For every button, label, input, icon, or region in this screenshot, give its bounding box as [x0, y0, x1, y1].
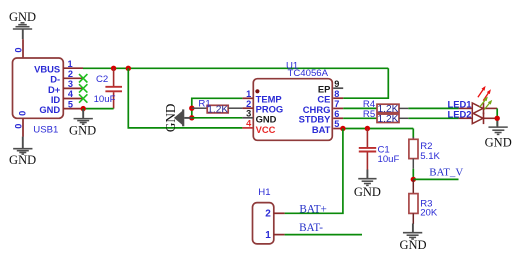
pin 1 VBUS [34, 59, 83, 75]
connector H1 [253, 187, 274, 244]
ground GND flag bottom-left [9, 137, 36, 167]
resistor R4 [363, 99, 408, 115]
ground GND flag under R3 [399, 224, 426, 253]
junction dot C2 top [111, 66, 116, 71]
wire pin5 down [82, 109, 84, 112]
ground GND flag rotated (left-pointing) [163, 104, 192, 133]
svg-text:GND: GND [354, 185, 381, 199]
capacitor C2 [94, 68, 122, 108]
svg-text:VCC: VCC [256, 124, 276, 135]
wire USB shield top pin [22, 39, 24, 58]
svg-text:H1: H1 [258, 187, 270, 198]
svg-text:8: 8 [334, 89, 339, 99]
junction dot C1 top [365, 126, 370, 131]
svg-text:10uF: 10uF [378, 154, 400, 165]
wire BAT rail [343, 128, 413, 130]
ground GND flag under C1 [354, 170, 381, 199]
pin 7 CHRG [303, 99, 343, 115]
svg-text:BAT-: BAT- [299, 222, 323, 234]
svg-text:5.1K: 5.1K [420, 151, 440, 162]
junction dot LED2 cathode [495, 116, 500, 121]
svg-text:TC4056A: TC4056A [288, 68, 329, 79]
no-connect X pin4 [79, 94, 87, 102]
resistor R5 [363, 109, 408, 125]
junction dot BAT_V node [411, 177, 416, 182]
svg-text:GND: GND [9, 153, 36, 167]
pin 2 D- [50, 69, 83, 85]
pin 3 GND [242, 109, 276, 125]
svg-text:20K: 20K [420, 207, 438, 218]
svg-text:0: 0 [17, 111, 27, 116]
svg-text:C2: C2 [96, 74, 108, 85]
wire R5 to LED2 [408, 117, 458, 119]
pin 5 BAT [312, 119, 343, 135]
svg-text:0: 0 [14, 47, 24, 52]
wire GND node to U1 pin3 [192, 117, 243, 119]
resistor R2 [409, 137, 441, 169]
svg-text:1: 1 [246, 89, 251, 99]
svg-text:5: 5 [68, 99, 73, 109]
LED LED2 [459, 97, 498, 125]
wire STDBY to R5 [343, 117, 377, 119]
svg-text:GND: GND [9, 10, 36, 24]
pin 4 ID [51, 89, 83, 105]
wire GND pin5 to C2 bottom [83, 108, 113, 110]
svg-text:BAT+: BAT+ [299, 203, 326, 215]
svg-text:USB1: USB1 [33, 125, 58, 136]
no-connect X pin3 [79, 84, 87, 92]
svg-text:5: 5 [334, 119, 339, 129]
ground GND flag under LEDs [485, 121, 512, 150]
svg-text:2: 2 [246, 99, 251, 109]
pin 3 D+ [48, 79, 83, 95]
capacitor C1 [359, 129, 400, 171]
wire CHRG to R4 [343, 107, 377, 109]
wire R4 to LED1 [408, 107, 458, 109]
svg-text:R5: R5 [363, 109, 375, 120]
pin 2 PROG [242, 99, 283, 115]
svg-text:10uF: 10uF [94, 94, 116, 105]
wire BAT_V stub [413, 178, 458, 180]
ground GND flag top-left [9, 10, 36, 39]
wire USB shield bottom pin [22, 118, 24, 137]
svg-text:4: 4 [68, 89, 74, 99]
svg-text:GND: GND [256, 113, 277, 124]
svg-text:GND: GND [39, 104, 60, 115]
wire BAT+ branch down [285, 129, 343, 214]
wire BAT to R2 [412, 129, 414, 139]
wire VBUS to top rail [83, 67, 388, 69]
svg-text:4: 4 [246, 119, 252, 129]
svg-text:BAT: BAT [312, 124, 331, 135]
pin 2 BAT+ [265, 209, 284, 220]
svg-text:GND: GND [69, 124, 96, 138]
svg-text:1: 1 [67, 59, 72, 69]
svg-text:6: 6 [334, 109, 339, 119]
pin 1 TEMP [242, 89, 281, 105]
svg-text:GND: GND [485, 135, 512, 149]
wire CE riser [343, 68, 388, 98]
junction dot VCC branch [126, 66, 131, 71]
svg-text:0: 0 [13, 124, 23, 129]
svg-text:2: 2 [265, 209, 271, 220]
pin 9 EP [318, 79, 343, 95]
connector USB1 [13, 58, 64, 136]
svg-text:2: 2 [68, 69, 73, 79]
pin 8 CE [317, 89, 343, 105]
junction dot R1 left [189, 106, 194, 111]
svg-text:1: 1 [265, 230, 271, 241]
wire VCC branch vertical [128, 68, 242, 128]
LED LED1 [459, 86, 498, 114]
pin 5 GND [39, 99, 83, 115]
resistor R1 [192, 98, 243, 115]
svg-text:GND: GND [163, 104, 178, 133]
wire R2 to node [412, 169, 414, 180]
svg-text:7: 7 [334, 99, 339, 109]
pin 4 VCC [242, 119, 275, 135]
svg-text:GND: GND [399, 238, 426, 252]
pin 1 BAT- [265, 230, 284, 241]
svg-text:1.2K: 1.2K [378, 114, 399, 125]
pin 6 STDBY [299, 109, 344, 125]
resistor R3 [409, 179, 438, 224]
op-amp U1 TC4056A box [253, 60, 332, 140]
svg-text:3: 3 [68, 79, 73, 89]
junction dot BAT pin [340, 126, 345, 131]
svg-text:BAT_V: BAT_V [429, 167, 463, 179]
ground GND flag under USB pin5 [69, 110, 96, 138]
no-connect X pin2 [79, 74, 87, 82]
svg-text:9: 9 [334, 79, 339, 89]
junction dot GND node [189, 115, 194, 120]
svg-text:1.2K: 1.2K [207, 104, 228, 115]
wire BAT- stub [285, 234, 362, 236]
wire TEMP net [192, 98, 243, 118]
wire LED cathodes join [496, 108, 498, 125]
junction dot pin5 [81, 106, 86, 111]
svg-text:3: 3 [246, 109, 251, 119]
